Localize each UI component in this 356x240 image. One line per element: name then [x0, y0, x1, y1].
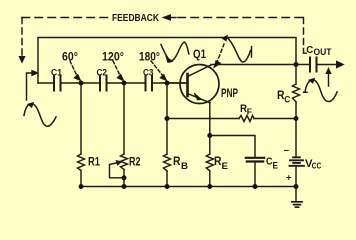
capacitor C1: [54, 76, 61, 91]
resistor RF: [239, 116, 254, 122]
node rail R1: [79, 184, 84, 189]
output arrow: [337, 61, 344, 68]
wire base: [167, 82, 188, 84]
svg-text:E: E: [273, 161, 279, 171]
sine annotation after 180: [161, 42, 189, 60]
node after C1: [79, 81, 84, 86]
potentiometer wiper R2: [110, 163, 125, 178]
resistor R2: [121, 154, 128, 170]
resistor RE: [206, 154, 213, 171]
dashed arrow 120: [113, 61, 121, 77]
ground: [292, 202, 302, 207]
wire emitter to CE: [210, 136, 255, 157]
wire RF row: [167, 118, 296, 120]
wire R1 column: [80, 83, 82, 187]
svg-text:60°: 60°: [62, 50, 78, 64]
node RF-base: [165, 116, 170, 121]
node emitter: [207, 133, 212, 138]
svg-text:−: −: [284, 146, 290, 157]
svg-text:R1: R1: [88, 157, 100, 169]
svg-text:180°: 180°: [139, 50, 160, 64]
svg-text:C2: C2: [97, 68, 108, 79]
svg-text:R: R: [173, 156, 181, 168]
svg-text:120°: 120°: [102, 50, 124, 64]
svg-text:C: C: [284, 95, 290, 105]
node dots: [79, 62, 299, 189]
wire capacitor row: [38, 82, 188, 84]
resistor RC: [293, 84, 300, 102]
svg-text:FEEDBACK: FEEDBACK: [112, 13, 159, 24]
battery VCC: [290, 157, 305, 166]
svg-text:R2: R2: [129, 157, 141, 169]
capacitor CE: [246, 158, 264, 162]
node R2 wiper bottom: [122, 175, 127, 180]
svg-text:+: +: [286, 173, 292, 184]
node after C3 / base: [165, 81, 170, 86]
resistor R1: [78, 154, 85, 171]
svg-text:Q1: Q1: [193, 47, 206, 61]
svg-text:CC: CC: [312, 161, 322, 171]
node rail VCC: [294, 184, 299, 189]
resistor RB: [164, 154, 171, 171]
svg-text:C1: C1: [51, 68, 63, 79]
output up arrow: [328, 72, 330, 86]
feedback left arrow after text: [163, 15, 171, 20]
transistor Q1: [180, 65, 219, 104]
capacitor C3: [146, 76, 153, 91]
svg-text:F: F: [247, 107, 252, 117]
dashed arrow 60: [70, 61, 78, 77]
node rail R2: [122, 184, 127, 189]
svg-text:C3: C3: [143, 68, 154, 79]
wire feedback loop top (box): [38, 38, 296, 84]
feedback down arrow: [19, 57, 25, 63]
node rail CE: [253, 184, 258, 189]
capacitor COUT: [310, 58, 317, 72]
input source bracket: [27, 73, 34, 100]
capacitor C2: [100, 76, 107, 91]
input sine: [24, 104, 56, 127]
wire output: [296, 64, 338, 66]
output sine: [304, 80, 338, 102]
node collector-output: [294, 62, 299, 67]
dashed arrow 180: [151, 61, 164, 77]
svg-text:PNP: PNP: [221, 86, 238, 100]
wire emitter column: [209, 103, 211, 187]
wire CE bottom: [254, 162, 256, 187]
node RF-RC: [294, 116, 299, 121]
wire RB column: [166, 83, 168, 187]
wire collector: [211, 64, 296, 66]
node rail RE: [207, 184, 212, 189]
collector sine: [226, 37, 251, 62]
wire R2 column: [123, 83, 125, 187]
svg-text:C: C: [306, 45, 313, 56]
dashed feedback line: [22, 17, 109, 19]
svg-text:E: E: [222, 161, 229, 171]
svg-text:B: B: [181, 161, 189, 171]
node rail RB: [165, 184, 170, 189]
node after C2: [122, 81, 127, 86]
dashed arrow at collector: [217, 44, 225, 64]
wire right rail / RC column: [295, 65, 297, 201]
svg-text:OUT: OUT: [314, 47, 332, 57]
wire bottom rail: [81, 186, 296, 188]
